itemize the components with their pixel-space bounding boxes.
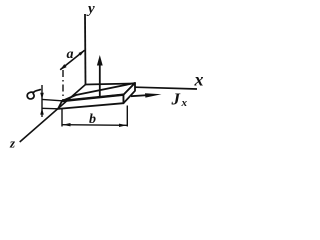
width arrow right <box>119 124 127 127</box>
width dimension b: right extension <box>126 106 128 127</box>
width dimension b: dimension line <box>62 124 127 127</box>
delta lower extension line <box>42 107 59 110</box>
delta upper extension line <box>42 99 62 100</box>
svg-text:z: z <box>9 136 16 151</box>
delta arrow up <box>40 108 44 114</box>
arrowhead a upper end <box>79 50 85 55</box>
plate top face <box>62 83 135 101</box>
width dimension b: left extension <box>61 109 63 127</box>
delta arrow down <box>40 93 44 100</box>
plate front face <box>58 95 124 109</box>
svg-text:y: y <box>86 1 95 17</box>
current density arrow Jx <box>131 95 150 96</box>
svg-text:x: x <box>181 97 188 109</box>
label delta <box>27 90 40 99</box>
y-axis <box>84 14 87 85</box>
plate front-top edge emphasized <box>62 95 124 101</box>
dimension line a (slanted) <box>60 50 84 70</box>
vector arrow up on plate <box>99 64 101 96</box>
svg-text:a: a <box>67 47 74 62</box>
dash-dot construction line at plate left edge <box>62 70 64 100</box>
svg-text:x: x <box>194 70 204 90</box>
arrowhead a lower end <box>60 64 67 70</box>
width arrow left <box>62 123 70 126</box>
z-axis <box>20 85 86 143</box>
x-axis left segment <box>86 84 135 85</box>
svg-text:b: b <box>89 112 96 127</box>
x-axis right segment <box>136 87 198 89</box>
plate right face <box>124 83 136 103</box>
svg-text:J: J <box>171 90 181 109</box>
delta dimension vertical line <box>41 85 43 117</box>
